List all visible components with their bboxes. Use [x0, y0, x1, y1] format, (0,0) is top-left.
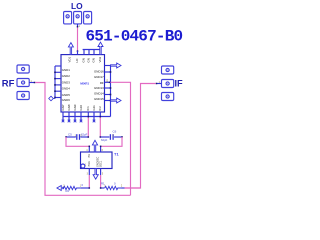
svg-text:G10: G10	[79, 105, 83, 111]
svg-text:GN: GN	[82, 58, 86, 62]
svg-text:C6: C6	[113, 130, 117, 134]
wire LO pad stub	[77, 24, 79, 28]
capacitor C6	[100, 134, 122, 140]
junction R2/T1	[89, 187, 91, 189]
resistor R1	[105, 186, 122, 189]
wire RF net pink (U1 right pin to right vertical)	[110, 82, 130, 195]
resistor R2	[64, 186, 82, 189]
svg-text:VD1: VD1	[68, 56, 72, 62]
wire RF net pink (pad to bottom loop)	[35, 83, 130, 196]
wire left GND bus	[54, 66, 56, 99]
T1 pin stubs top	[89, 146, 100, 152]
svg-text:G11: G11	[92, 105, 96, 111]
net connector arrow (right) top	[111, 63, 122, 68]
svg-text:PR: PR	[88, 154, 91, 158]
svg-text:GN8: GN8	[67, 104, 71, 110]
svg-text:GND14: GND14	[94, 91, 104, 95]
T1 pin stubs bottom	[89, 169, 100, 176]
net connector arrow (up) on T1 top center	[92, 140, 97, 152]
junction RF stub	[34, 82, 36, 84]
connector J-IF pad top	[162, 66, 174, 74]
svg-text:2: 2	[121, 186, 123, 188]
svg-text:MIXR1: MIXR1	[80, 81, 89, 85]
connector J-IF pad middle (signal)	[162, 80, 174, 88]
transformer T1 body	[81, 152, 113, 169]
junction RF pin	[109, 82, 111, 84]
wire pink C6 to T1 pin2	[101, 137, 122, 146]
connector J-RF pad top	[17, 65, 29, 73]
pin U1 top stub c	[93, 50, 95, 55]
junction C6 right	[121, 136, 123, 138]
svg-text:R2: R2	[66, 189, 70, 193]
capacitor C5	[66, 134, 88, 140]
pin U1 top stub b	[88, 50, 90, 55]
wire U1 top tie (pins to arrow)	[83, 49, 101, 51]
junctions bottom rail	[88, 116, 102, 118]
junction C5 left	[65, 136, 67, 138]
svg-text:3: 3	[87, 173, 89, 175]
svg-text:5: 5	[102, 173, 104, 175]
net connector arrow (up) on U1 top right pin	[98, 42, 103, 54]
svg-text:GND2: GND2	[62, 74, 70, 78]
U1 left pins stubs + bus	[55, 66, 61, 99]
U1 right pin labels	[94, 69, 104, 100]
svg-text:VD2: VD2	[98, 56, 102, 62]
U1 bottom pin stubs	[63, 112, 111, 122]
junctions on left bus	[54, 72, 56, 99]
pin U1 top LO stub	[77, 51, 79, 55]
wire IF1 pink (U1 pin to C5)	[87, 118, 89, 137]
junction IF stub	[156, 83, 158, 85]
svg-text:GN: GN	[92, 58, 96, 62]
svg-text:GN7: GN7	[61, 104, 65, 110]
svg-text:IF1: IF1	[86, 106, 90, 111]
svg-text:RF: RF	[2, 78, 15, 89]
connector J-LO pad 3	[84, 12, 92, 24]
diamond net connector at left bus bottom	[49, 96, 54, 101]
svg-text:0: 0	[114, 181, 116, 185]
svg-text:GND5: GND5	[62, 93, 70, 97]
U1 bottom pin labels (rotated)	[61, 104, 102, 110]
svg-text:1: 1	[79, 26, 81, 28]
svg-text:62pF: 62pF	[81, 132, 88, 136]
net connector arrow (right) bottom	[111, 98, 122, 103]
IC U1 (MIXR1) body	[61, 55, 105, 112]
connector J-RF pad bottom	[17, 92, 29, 100]
svg-text:GND6: GND6	[62, 98, 70, 102]
net connector arrow (down) under T1	[93, 169, 98, 180]
net connector arrow (left) at R2	[57, 186, 64, 191]
svg-text:T1: T1	[114, 152, 119, 157]
wire IF pad stub	[156, 83, 161, 85]
pin numbers (olive)	[31, 26, 161, 187]
wire RF pad stub	[29, 82, 34, 84]
junction T1 pin2	[100, 146, 102, 148]
svg-text:GND17: GND17	[94, 75, 104, 79]
wire R2 to T1 pin4	[81, 187, 89, 189]
svg-text:SEC1: SEC1	[100, 160, 103, 167]
wire R1 to IF (blue then pink)	[122, 187, 125, 189]
junctions on right bus	[110, 71, 112, 101]
connector J-LO pad 1	[64, 12, 72, 24]
svg-text:0: 0	[82, 183, 84, 187]
connector J-LO pad 2 (signal)	[74, 12, 82, 24]
net connector arrow (up) on U1 top pin 1	[68, 43, 73, 55]
svg-text:GN9: GN9	[73, 104, 77, 110]
T1 phase dot circle	[81, 164, 85, 168]
wire IF net pink (pad to R1 via vertical)	[125, 84, 156, 189]
wire pink C5 to T1 pin1	[66, 137, 89, 146]
U1 right pins stubs	[105, 66, 111, 117]
wire T1 pin5 to R1	[101, 187, 105, 189]
svg-text:GND3: GND3	[62, 80, 70, 84]
svg-text:IF2: IF2	[98, 106, 102, 111]
wire IF2 pink (U1 pin to C6)	[99, 118, 101, 137]
wire bottom GND rail	[63, 116, 111, 118]
connector J-IF pad bottom	[162, 93, 174, 101]
no-connect X marks	[62, 120, 96, 123]
wire LO net (pink vertical to U1)	[77, 28, 79, 51]
U1 top pin labels (rotated)	[68, 56, 103, 62]
svg-text:IF: IF	[175, 79, 184, 89]
junction T1 pin1	[89, 146, 91, 148]
svg-text:LO: LO	[71, 1, 83, 11]
svg-text:PRI1: PRI1	[88, 161, 91, 167]
svg-text:RF: RF	[100, 81, 104, 85]
wire pink T1 pin5 down	[100, 175, 102, 188]
junction C6 left	[100, 136, 102, 138]
svg-text:GN: GN	[87, 58, 91, 62]
svg-text:GND4: GND4	[62, 87, 70, 91]
pin U1 top stub a	[83, 50, 85, 55]
svg-text:GND1: GND1	[62, 68, 70, 72]
svg-text:C5: C5	[68, 132, 72, 136]
junction LO stub	[77, 26, 79, 28]
svg-text:GND13: GND13	[94, 86, 104, 90]
wire pink T1 pin4 down	[88, 175, 90, 188]
junction C5 right	[88, 136, 90, 138]
U1 left pin labels GND1-GND6	[62, 68, 70, 102]
connector J-RF pad middle (signal)	[17, 79, 29, 87]
svg-text:GND15: GND15	[94, 97, 104, 101]
junction LO at U1 pin	[77, 50, 79, 52]
wire right GND bus	[110, 66, 112, 117]
T1 pin labels inside (rotated)	[88, 154, 102, 167]
svg-text:GND16: GND16	[94, 69, 104, 73]
junction T1 pin5 / R1	[100, 187, 102, 189]
svg-text:62pF: 62pF	[101, 138, 108, 142]
